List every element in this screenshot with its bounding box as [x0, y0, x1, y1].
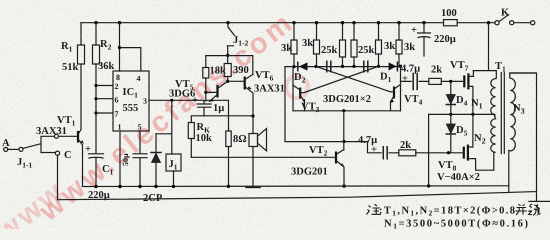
speaker 8ohm	[249, 129, 267, 187]
node: VT2 collector junction	[342, 140, 345, 143]
node: pin3/relay junction	[170, 99, 173, 102]
capacitor (right coupling)	[364, 61, 368, 71]
wire: cross coupling X	[301, 66, 391, 92]
wire: pin 1 to ground rail	[119, 131, 121, 186]
capacitor C1 220u	[85, 144, 114, 201]
transistor VT3 3DG201	[293, 85, 320, 114]
diode D4	[446, 81, 467, 114]
transistor VT6 3AX31	[245, 70, 285, 134]
wire: N3 bottom to ground rail	[508, 151, 510, 193]
node: emitter rail center tap	[342, 109, 345, 112]
node: 18k/390/J1-2 top junction	[226, 54, 229, 57]
node: pin2/6/7 junction dots on R2 column	[94, 84, 97, 115]
wire: pin 3 output line	[149, 99, 229, 101]
winding N2	[474, 114, 496, 152]
resistor 3k (fourth)	[396, 23, 415, 66]
resistor 2k (bottom)	[399, 140, 463, 156]
transistor VT5 3DG6	[169, 79, 228, 102]
watermark text www.elecfans.com	[0, 6, 301, 240]
switch J1-1	[8, 134, 77, 169]
resistor 8ohm	[226, 101, 247, 186]
wire: VT7 source to VT8 drain	[472, 88, 474, 142]
capacitor 4.7u (bottom, to VT8 gate)	[358, 135, 399, 159]
diode D5	[446, 114, 467, 152]
resistor 390	[224, 55, 249, 81]
diode D2	[294, 62, 308, 84]
transistor VT1 3AX31	[36, 115, 84, 186]
ground bar under speaker	[246, 186, 260, 188]
node: VT5 base / 18k junction	[204, 91, 207, 94]
wire: VT2 collector drop	[343, 111, 345, 150]
terminal A	[2, 138, 10, 151]
diode 2CP flyback	[143, 134, 163, 204]
note text line 1	[379, 206, 541, 231]
resistor 2k (top)	[429, 65, 463, 85]
hanzi 并	[516, 205, 528, 216]
wire: supply drop to output stage	[473, 23, 496, 78]
transistor VT4 3DG201	[390, 85, 422, 111]
junction dots on coupling line	[292, 65, 402, 69]
watermark ring	[286, 76, 308, 98]
node: D5 gate junction	[447, 151, 450, 154]
wire: +V top rail	[81, 22, 495, 24]
resistor 3k (third)	[376, 23, 396, 67]
capacitor 4.7u (top, to VT7 gate)	[401, 64, 429, 90]
resistor RK 10k	[188, 116, 212, 158]
winding N3	[510, 78, 525, 151]
resistor 3k (first)	[281, 23, 297, 67]
relay coil J1	[166, 154, 181, 186]
switch J1-2	[227, 23, 248, 56]
resistor R1 51k	[61, 23, 85, 129]
wire: emitter node to speaker top	[204, 115, 253, 117]
wire: relay drive drop	[156, 100, 172, 154]
wire: pin 8/4 supply bracket	[120, 23, 141, 71]
wire: VT4 collector column	[400, 66, 402, 111]
wire: left multivibrator drop (keying line)	[285, 67, 368, 142]
resistor 25k (second)	[351, 23, 375, 67]
transformer T1 core	[495, 61, 506, 154]
IC U1: 555 timer IC1	[113, 71, 149, 132]
wire: N3 top to output loop	[510, 73, 535, 78]
node: VT5 collector / VT6 base junction	[226, 80, 229, 83]
wire: ground mid rail	[83, 185, 509, 188]
hanzi 绕	[528, 204, 541, 215]
capacitor 220u (top filter)	[411, 23, 456, 56]
junction dots on mid rail	[94, 184, 430, 188]
wire: VT3 collector column	[292, 67, 294, 111]
capacitor 1u	[192, 95, 224, 116]
winding N1	[471, 78, 496, 115]
wire: multivibrator emitter rail	[293, 110, 401, 112]
capacitor (left coupling)	[327, 61, 331, 71]
resistor R2 36k	[93, 23, 115, 151]
transistor VT7 (V-40A)	[450, 60, 473, 89]
switch K	[495, 8, 535, 25]
node: speaker/8ohm junction	[251, 114, 254, 117]
wire: IC pin 2,6,7 stubs	[96, 86, 113, 114]
resistor 100 (series in top rail)	[441, 8, 457, 26]
junction dots on top rail	[94, 21, 490, 24]
scan noise overlay	[0, 0, 1, 1]
transistor VT2 3DG201	[291, 145, 344, 186]
wire: RK to VT2 base	[191, 156, 336, 158]
wire: center tap to ground rail	[428, 114, 430, 185]
hanzi 注	[367, 204, 382, 214]
terminal C	[55, 150, 71, 200]
diode D1	[380, 62, 397, 84]
transistor VT8 (V-40A)	[437, 142, 494, 183]
wire: center tap line	[429, 113, 494, 115]
wire: bottom outer rail	[58, 73, 550, 202]
wire: VT6 base	[228, 80, 244, 82]
wire: 18k top to VT6 collector	[206, 56, 253, 75]
resistor 18k	[203, 56, 226, 101]
node: D4 gate junction	[449, 80, 452, 83]
node: pin8 bracket junction	[118, 46, 121, 49]
resistor 3k (second)	[302, 23, 320, 67]
capacitor 50u on pin 5	[121, 131, 147, 186]
resistor 25k (first)	[321, 23, 346, 67]
wire: multivibrator coupling line	[285, 66, 401, 68]
